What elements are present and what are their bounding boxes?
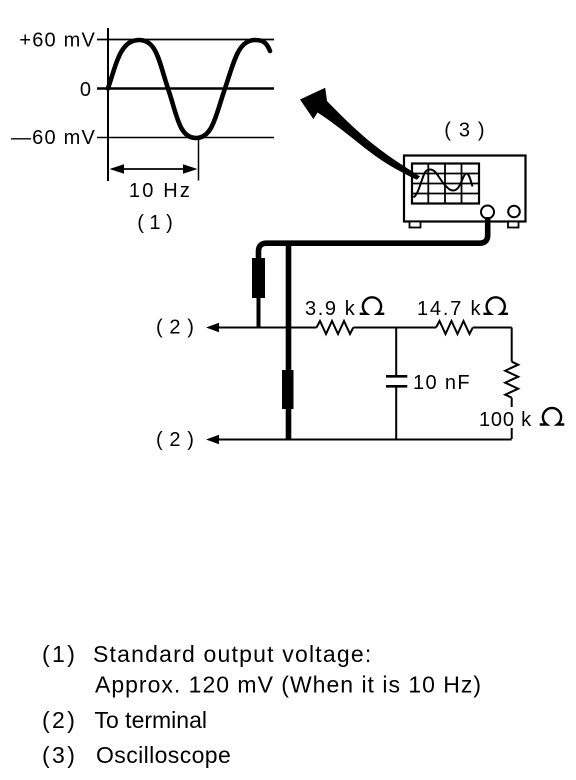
coax cable from oscilloscope connector xyxy=(259,217,488,259)
label ( 1 ) xyxy=(137,212,173,234)
legend row 4: (3) Oscilloscope xyxy=(42,742,231,768)
svg-text:( 2 ): ( 2 ) xyxy=(156,317,195,339)
oscilloscope screen xyxy=(412,164,479,204)
oscilloscope U1 body xyxy=(404,156,526,222)
svg-text:( 3 ): ( 3 ) xyxy=(444,120,486,142)
arrow to terminal top xyxy=(206,323,219,332)
oscilloscope foot right xyxy=(508,222,519,228)
svg-text:10 nF: 10 nF xyxy=(413,372,471,394)
legend row 2: Approx. 120 mV (When it is 10 Hz) xyxy=(95,672,482,698)
probe plug body lower xyxy=(282,370,294,409)
period tick below trough xyxy=(198,138,200,181)
svg-text:+60 mV: +60 mV xyxy=(19,30,96,52)
coax cable branch down to bottom wire xyxy=(286,243,292,439)
sine wave trace xyxy=(108,40,270,138)
label 0 xyxy=(80,79,91,101)
oscilloscope foot left xyxy=(410,222,421,228)
svg-text:( 2 ): ( 2 ) xyxy=(156,429,195,451)
capacitor branch wire lower xyxy=(395,386,397,439)
legend row 1: (1) Standard output voltage: xyxy=(42,641,372,667)
resistor 100 kOhm (vertical) xyxy=(505,362,518,398)
waveform graph zero line xyxy=(97,87,274,90)
right branch wire upper xyxy=(511,328,513,362)
period dimension double arrow xyxy=(110,164,198,174)
oscilloscope screen grid xyxy=(412,164,479,204)
svg-text:( 1 ): ( 1 ) xyxy=(137,212,173,234)
oscilloscope screen waveform trace xyxy=(414,170,473,198)
right branch wire lower xyxy=(511,398,513,439)
label 14.7 k Ohm xyxy=(417,297,508,320)
callout swoosh arrow from oscilloscope to waveform xyxy=(300,88,420,180)
capacitor C 10 nF plates xyxy=(386,376,407,386)
svg-text:—60 mV: —60 mV xyxy=(11,127,96,149)
waveform graph +60 mV grid line xyxy=(97,39,274,41)
svg-text:3.9 k: 3.9 k xyxy=(305,298,356,320)
top wire left segment xyxy=(214,327,317,329)
svg-text:(2): (2) xyxy=(42,707,77,733)
svg-text:100 k: 100 k xyxy=(479,409,532,431)
svg-text:14.7 k: 14.7 k xyxy=(417,298,482,320)
svg-text:10 Hz: 10 Hz xyxy=(129,180,192,202)
label 10 nF xyxy=(413,372,471,394)
label ( 2 ) bottom xyxy=(156,429,195,451)
oscilloscope knob/connector right xyxy=(508,206,520,218)
svg-text:Oscilloscope: Oscilloscope xyxy=(96,742,231,768)
bottom wire xyxy=(214,439,512,441)
top wire right segment xyxy=(473,327,512,329)
waveform graph -60 mV grid line xyxy=(97,137,274,139)
label ( 3 ) xyxy=(444,120,486,142)
capacitor branch wire upper xyxy=(395,328,397,377)
label 100 k Ohm xyxy=(478,407,570,431)
resistor 3.9 kOhm xyxy=(317,321,354,334)
svg-text:0: 0 xyxy=(80,79,91,101)
label +60 mV xyxy=(19,30,96,52)
svg-text:(1): (1) xyxy=(42,641,77,667)
label 3.9 k Ohm xyxy=(305,297,384,320)
probe tip wire to top terminal wire xyxy=(257,298,261,328)
probe plug body upper xyxy=(252,258,265,298)
label 10 Hz xyxy=(129,180,192,202)
svg-text:(3): (3) xyxy=(42,742,77,768)
svg-text:Approx. 120 mV (When it is 10: Approx. 120 mV (When it is 10 Hz) xyxy=(95,672,482,698)
resistor 14.7 kOhm xyxy=(436,321,473,334)
svg-text:To terminal: To terminal xyxy=(95,707,207,733)
svg-text:Standard output voltage:: Standard output voltage: xyxy=(93,641,372,667)
legend row 3: (2) To terminal xyxy=(42,707,207,733)
label ( 2 ) top xyxy=(156,317,195,339)
oscilloscope knob/connector left xyxy=(481,206,494,219)
arrow to terminal bottom xyxy=(206,435,219,444)
top wire middle segment xyxy=(353,327,436,329)
label -60 mV xyxy=(11,127,96,149)
waveform graph vertical axis xyxy=(107,28,109,181)
